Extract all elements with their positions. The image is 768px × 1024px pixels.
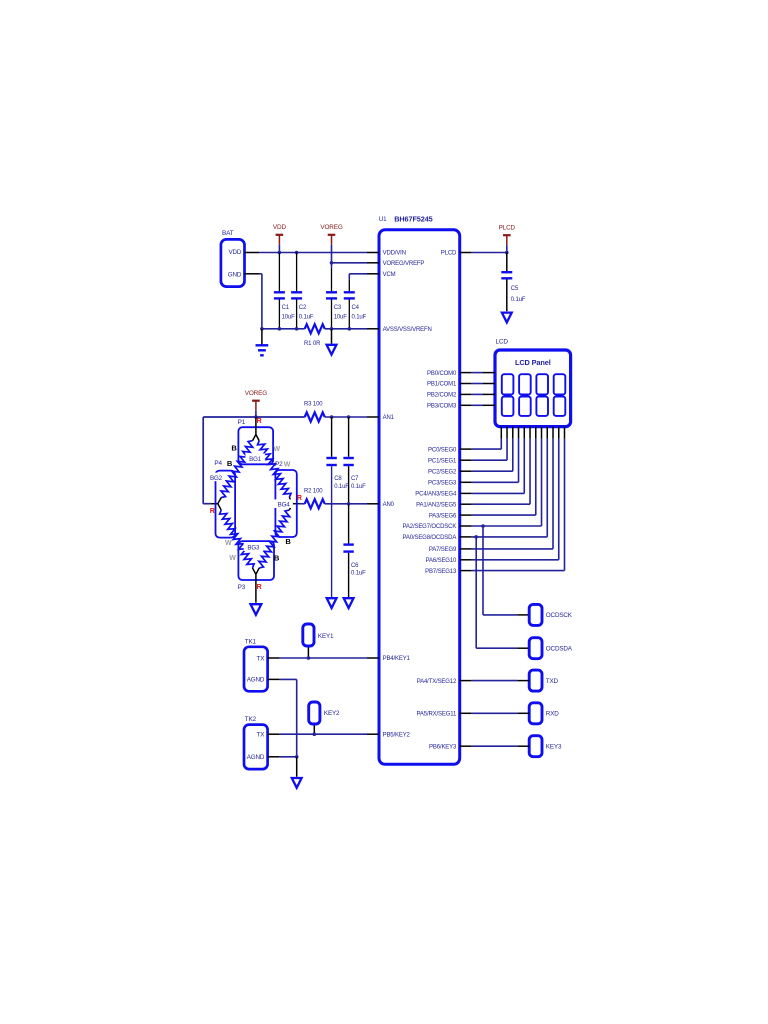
svg-text:R3 100: R3 100	[304, 402, 323, 408]
wire SEG10 LCD to U1	[558, 427, 560, 439]
wire AVSS rail left segment	[262, 328, 305, 330]
svg-text:R2 100: R2 100	[304, 489, 323, 495]
junction AN0 C7 C6	[347, 502, 351, 506]
wire AGND to ground	[296, 757, 298, 777]
connector BAT body	[221, 239, 245, 286]
svg-text:P2: P2	[275, 461, 283, 468]
capacitor C4	[344, 292, 355, 298]
7-segment digit 2	[519, 374, 531, 416]
svg-text:PB2/COM2: PB2/COM2	[427, 393, 457, 399]
7-segment digit 3	[536, 374, 548, 416]
wire C3 bottom lead	[331, 299, 333, 328]
wire TK1 AGND lead	[268, 678, 280, 680]
svg-text:GND: GND	[228, 271, 242, 278]
ground symbol triangle below C6	[344, 598, 354, 608]
svg-text:P1: P1	[238, 419, 246, 426]
svg-text:TX: TX	[257, 732, 266, 739]
junction VDD C2	[295, 251, 299, 255]
resistor R2	[305, 499, 325, 508]
junction rail C1	[278, 327, 282, 331]
sensor box P4 body	[216, 471, 236, 538]
wire AN0 to U1	[325, 503, 367, 505]
wire COM0 U1 to LCD	[460, 372, 472, 374]
wire KEY2 to PB5 net	[313, 725, 315, 734]
svg-text:PC2/SEG2: PC2/SEG2	[428, 469, 457, 475]
wire COM3 U1 to LCD	[460, 404, 472, 406]
junction VDD C1	[278, 251, 282, 255]
connector OCDSCK body	[529, 604, 542, 625]
wire C1 bottom lead	[278, 299, 280, 328]
wire SEG6 LCD to U1	[535, 427, 537, 439]
connector TK1 body	[244, 647, 268, 692]
wire C5 top lead	[506, 253, 508, 272]
wire C7 vertical	[348, 417, 350, 457]
svg-text:VOREG/VREFP: VOREG/VREFP	[383, 261, 425, 267]
wire SEG5 LCD to U1	[529, 427, 531, 439]
BG1 label	[245, 453, 265, 462]
svg-text:0.1uF: 0.1uF	[299, 314, 314, 320]
svg-text:AGND: AGND	[247, 677, 265, 684]
svg-text:P4: P4	[214, 460, 222, 467]
junction AN1 C8	[330, 415, 334, 419]
junction SEG7 OCDSCK	[481, 524, 485, 528]
strain gauge BG2 arm bottom-left	[218, 504, 221, 510]
svg-text:LCD: LCD	[496, 339, 509, 346]
wire C8 vertical	[331, 417, 333, 457]
svg-text:B: B	[274, 553, 280, 562]
ground symbol AGND triangle below C3	[331, 329, 333, 344]
BG2 label	[207, 473, 225, 482]
svg-text:TK2: TK2	[245, 716, 257, 723]
connector TK2 body	[244, 725, 268, 770]
svg-text:C3: C3	[334, 305, 342, 311]
svg-text:TXD: TXD	[546, 678, 559, 685]
svg-text:0.1uF: 0.1uF	[334, 484, 349, 490]
junction SEG8 OCDSDA	[474, 535, 478, 539]
svg-text:PB1/COM1: PB1/COM1	[427, 382, 457, 388]
wire AN1 rail left arm	[203, 416, 305, 418]
svg-text:C7: C7	[351, 476, 359, 482]
strain gauge BG1 arm top-left	[252, 435, 255, 441]
wire BAT GND lead	[245, 273, 260, 275]
svg-text:PC4/AN3/SEG4: PC4/AN3/SEG4	[415, 492, 457, 498]
junction AGND	[295, 755, 299, 759]
power symbol VOREG bridge	[245, 390, 268, 411]
junction KEY1 PB4	[307, 656, 311, 660]
wire U1 to connector	[460, 745, 472, 747]
wire PB4/KEY1 net	[268, 657, 280, 659]
svg-text:0.1uF: 0.1uF	[352, 314, 367, 320]
svg-text:R: R	[257, 418, 262, 425]
wire VOREG net to U1 VOREG/VREFP	[332, 262, 368, 264]
svg-text:R: R	[210, 508, 215, 515]
svg-text:PB4/KEY1: PB4/KEY1	[383, 656, 411, 662]
svg-text:AGND: AGND	[247, 754, 265, 761]
svg-text:KEY3: KEY3	[546, 744, 562, 751]
svg-text:LCD Panel: LCD Panel	[515, 358, 551, 367]
svg-text:PB5/KEY2: PB5/KEY2	[383, 732, 411, 738]
sensor box P2 body	[275, 470, 296, 537]
svg-text:VDD/VIN: VDD/VIN	[383, 251, 406, 257]
connector OCDSDA body	[529, 638, 542, 659]
strain gauge arm top-right	[256, 435, 259, 441]
svg-text:PA0/SEG8/OCDSDA: PA0/SEG8/OCDSDA	[403, 535, 457, 541]
capacitor C7	[343, 458, 353, 465]
junction rail C3	[330, 327, 334, 331]
wire SEG8 LCD to U1	[546, 427, 548, 439]
wire C2 bottom lead	[296, 299, 298, 328]
svg-text:PC3/SEG3: PC3/SEG3	[428, 481, 457, 487]
svg-text:B: B	[227, 459, 233, 468]
svg-text:PLCD: PLCD	[441, 251, 457, 257]
capacitor C5	[501, 272, 512, 278]
sensor box P3 body	[238, 541, 274, 580]
svg-text:U1: U1	[379, 216, 387, 223]
7-segment digit 4	[554, 374, 566, 416]
connector KEY1 body	[303, 624, 314, 646]
wire AVSS rail right segment	[325, 328, 367, 330]
svg-text:R: R	[257, 584, 262, 591]
wire P2 node to R2	[293, 503, 300, 505]
ground symbol triangle bridge	[251, 604, 262, 615]
junction bridge top	[254, 415, 258, 419]
wire VOREG symbol stub	[331, 245, 333, 263]
svg-text:P3: P3	[238, 584, 246, 591]
wire SEG13 LCD to U1	[563, 427, 565, 439]
svg-text:10uF: 10uF	[282, 314, 296, 320]
svg-text:PA6/SEG10: PA6/SEG10	[426, 558, 457, 564]
svg-text:C5: C5	[511, 286, 519, 292]
svg-text:W: W	[225, 540, 232, 547]
7-segment digit 1	[502, 374, 514, 416]
svg-text:C1: C1	[282, 305, 290, 311]
ground symbol AGND triangle bottom	[292, 778, 302, 788]
wire SEG4 LCD to U1	[523, 427, 525, 439]
svg-text:PB7/SEG13: PB7/SEG13	[425, 569, 457, 575]
svg-text:C4: C4	[352, 305, 360, 311]
connector RXD body	[529, 703, 542, 724]
junction AN1 C7	[347, 415, 351, 419]
svg-text:B: B	[285, 537, 291, 546]
svg-text:VOREG: VOREG	[245, 390, 268, 397]
wire VOREG into bridge top node	[255, 417, 257, 435]
BG3 label	[244, 542, 264, 551]
strain gauge BG4 arm bottom-right	[289, 504, 292, 510]
svg-text:BH67F5245: BH67F5245	[394, 214, 432, 223]
svg-text:0.1uF: 0.1uF	[351, 570, 366, 576]
junction rail C4	[348, 327, 352, 331]
junction rail C2	[295, 327, 299, 331]
svg-text:PB0/COM0: PB0/COM0	[427, 371, 457, 377]
wire VDD net BAT to U1	[245, 252, 260, 254]
svg-text:PA1/AN2/SEG5: PA1/AN2/SEG5	[416, 502, 457, 508]
wire C2 top lead	[296, 253, 298, 292]
svg-text:W: W	[273, 446, 280, 453]
svg-text:BG1: BG1	[249, 456, 262, 463]
svg-text:BG2: BG2	[210, 475, 223, 482]
wire C4 bottom lead	[348, 299, 350, 328]
svg-text:VDD: VDD	[273, 224, 287, 231]
wire C5 bottom lead	[506, 279, 508, 311]
svg-text:C2: C2	[299, 305, 307, 311]
wire VOREG to AN1 rail	[255, 411, 257, 417]
svg-text:0.1uF: 0.1uF	[511, 297, 526, 303]
svg-text:PB6/KEY3: PB6/KEY3	[429, 744, 457, 750]
wire PLCD symbol stub	[506, 245, 508, 252]
power symbol VOREG	[320, 224, 343, 245]
wire TK2 AGND lead	[268, 756, 280, 758]
wire OCDSDA tap	[475, 537, 477, 648]
wire C3 top lead	[331, 268, 333, 292]
svg-text:KEY1: KEY1	[318, 633, 334, 640]
BG4 label	[274, 499, 293, 508]
junction KEY2 PB5	[313, 732, 317, 736]
wire SEG9 LCD to U1	[552, 427, 554, 439]
junction PLCD C5	[505, 251, 509, 255]
svg-text:R: R	[297, 495, 302, 502]
resistor R3	[305, 412, 325, 421]
wire AGND vertical	[296, 679, 298, 756]
svg-text:AN1: AN1	[383, 415, 395, 421]
wire C6 vertical	[348, 504, 350, 544]
svg-text:W: W	[284, 462, 291, 469]
capacitor C6	[343, 545, 353, 552]
connector KEY2 body	[309, 702, 320, 724]
svg-text:W: W	[229, 555, 236, 562]
wire VCM net to U1 VCM	[349, 273, 367, 275]
svg-text:PA7/SEG9: PA7/SEG9	[429, 547, 457, 553]
wire SEG7 LCD to U1	[541, 427, 543, 439]
display LCD Panel body	[495, 350, 571, 427]
IC U1 BH67F5245 MCU body	[379, 230, 460, 765]
wire PLCD net U1 to C5	[460, 252, 472, 254]
svg-text:PC1/SEG1: PC1/SEG1	[428, 458, 457, 464]
junction VOREG C3	[330, 261, 334, 265]
svg-text:PA4/TX/SEG12: PA4/TX/SEG12	[417, 679, 457, 685]
svg-text:R1 0R: R1 0R	[304, 341, 321, 347]
svg-text:0.1uF: 0.1uF	[351, 484, 366, 490]
svg-text:VOREG: VOREG	[320, 224, 343, 231]
svg-text:10uF: 10uF	[334, 314, 348, 320]
svg-text:OCDSCK: OCDSCK	[546, 612, 573, 619]
svg-text:PA5/RX/SEG11: PA5/RX/SEG11	[417, 712, 457, 718]
wire left vertical to P4 node	[202, 417, 204, 504]
svg-text:KEY2: KEY2	[324, 710, 340, 717]
svg-text:BG4: BG4	[278, 502, 291, 509]
svg-text:AN0: AN0	[383, 502, 395, 508]
svg-text:VCM: VCM	[383, 272, 396, 278]
resistor R1	[305, 324, 325, 333]
wire COM1 U1 to LCD	[460, 383, 472, 385]
ground symbol triangle below C8	[327, 598, 337, 608]
svg-text:BG3: BG3	[247, 545, 260, 552]
power symbol VDD	[273, 224, 287, 245]
svg-text:RXD: RXD	[546, 711, 559, 718]
power symbol PLCD	[499, 225, 516, 246]
wire C1 top lead	[278, 253, 280, 292]
wire SEG3 LCD to U1	[518, 427, 520, 439]
junction rail GND	[260, 327, 264, 331]
svg-text:PC0/SEG0: PC0/SEG0	[428, 447, 457, 453]
wire COM2 U1 to LCD	[460, 393, 472, 395]
wire OCDSCK tap	[482, 526, 484, 615]
svg-text:PA3/SEG6: PA3/SEG6	[429, 513, 457, 519]
ground symbol GND bars	[261, 329, 263, 345]
wire U1 to connector	[460, 680, 472, 682]
sensor box P1 body	[238, 427, 273, 464]
connector TXD body	[529, 670, 542, 691]
capacitor C3	[326, 292, 337, 298]
svg-text:C6: C6	[351, 563, 359, 569]
wire SEG0 LCD to U1	[500, 427, 502, 439]
connector KEY3 body	[529, 736, 542, 757]
svg-text:PB3/COM3: PB3/COM3	[427, 404, 457, 410]
capacitor C2	[291, 292, 302, 298]
wire C4 top lead	[348, 279, 350, 291]
wire bridge bottom node to ground	[255, 574, 257, 602]
capacitor C8	[326, 458, 336, 465]
capacitor C1	[274, 292, 285, 298]
wire SEG1 LCD to U1	[506, 427, 508, 439]
ground symbol AGND triangle below C5	[502, 313, 512, 323]
svg-text:OCDSDA: OCDSDA	[546, 646, 573, 653]
svg-text:BAT: BAT	[222, 230, 234, 237]
svg-text:C8: C8	[334, 476, 342, 482]
svg-text:VDD: VDD	[228, 249, 241, 256]
wire SEG2 LCD to U1	[512, 427, 514, 439]
svg-text:B: B	[231, 443, 237, 452]
svg-text:TK1: TK1	[245, 638, 257, 645]
wire VDD symbol stub	[278, 245, 280, 253]
wire KEY1 to PB4 net	[307, 647, 309, 658]
wire PB5/KEY2 net	[268, 733, 280, 735]
svg-text:PA2/SEG7/OCDSCK: PA2/SEG7/OCDSCK	[403, 524, 457, 530]
wire AN1 to U1	[325, 416, 367, 418]
wire GND vertical to rail	[261, 274, 263, 329]
wire U1 to connector	[460, 712, 472, 714]
svg-text:AVSS/VSS/VREFN: AVSS/VSS/VREFN	[383, 327, 432, 333]
svg-text:TX: TX	[257, 655, 266, 662]
svg-text:PLCD: PLCD	[499, 225, 516, 232]
